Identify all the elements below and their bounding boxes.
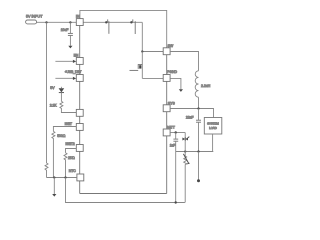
pin USB_DET box [76,75,83,82]
svg-text:BATT: BATT [167,126,176,130]
wire: inductor bottom to SYS rail [198,97,200,108]
wire: ground rail y=151 [176,151,214,153]
capacitor C4 22uF [198,109,200,121]
capacitor C1 on top rail (tiny) [105,19,109,33]
capacitor C2 on top rail (tiny) [130,19,135,34]
wire: SW to inductor top [170,52,198,71]
svg-text:10uF: 10uF [61,28,69,32]
connector J1 5V input [26,20,37,24]
node: junction dot 10uF tap [69,21,71,23]
pin BATT box [163,129,170,136]
pin PGND box [163,75,170,82]
wire: riser down to bottom ground run [66,178,185,203]
wire: SW node to SW pin [142,51,163,53]
wire: rail continuing right of IN pin (IC top edge) to corner [83,21,142,23]
wire: NTC bus [47,177,77,179]
pin NTC box [77,174,84,181]
svg-text:5V: 5V [50,86,55,90]
wire: ISET to 500 ohm resistor [53,127,76,132]
node: dot thermistor top [184,150,186,152]
svg-text:2.2uH: 2.2uH [201,84,211,88]
node: dot ground run / battery cap [175,201,177,203]
svg-text:2.2K: 2.2K [50,103,58,107]
node: dot at 500ohm/ground stub [53,176,55,178]
box: SYSTEM LOAD [204,118,222,135]
wire: USB_DET input arrow [55,77,73,79]
wire: transistor source down and right to PGND pin [142,77,163,79]
wire: SYS rail to load [170,109,213,118]
ground: arrow for PGND [179,89,183,92]
ground: terminal dot under 22uF line [197,179,200,182]
node: junction dot input rail / left drop [45,21,47,23]
IC U1 right edge [166,55,168,194]
svg-text:IN: IN [76,15,80,19]
pin CHG box (unnamed) [76,109,83,116]
ground: arrow under C3 [68,46,72,49]
node: dot at inductor/SYS junction [197,107,199,109]
svg-text:SYSTEM: SYSTEM [207,122,219,126]
resistor R3 2K [64,153,67,178]
svg-text:+USB_DET: +USB_DET [65,70,83,74]
svg-text:500Ω: 500Ω [57,134,66,138]
pin IN box [76,19,83,26]
wire: BATT rail [170,132,185,134]
pin SYS box [163,105,170,112]
pin SW box [163,48,170,55]
wire: ground stub below bus [53,178,55,195]
wire: PGND to ground arrow [170,78,181,89]
svg-text:SW: SW [168,44,174,48]
svg-text:1uF: 1uF [170,143,175,147]
svg-text:ISET2: ISET2 [65,142,74,146]
pin EN box [76,58,83,65]
svg-text:LOAD: LOAD [209,126,218,130]
resistor R2 500ohm [52,131,55,177]
svg-text:2KΩ: 2KΩ [68,156,75,160]
capacitor C3 10uF input [69,22,71,33]
resistor R4 on left drop [45,163,48,178]
IC U1 left edge [79,25,81,193]
node: junction dot at SW drop [141,50,143,52]
wire: top rail from IN pin up and over to SW drop [80,10,167,47]
wire: 22uF line below rail [198,152,200,180]
wire: input rail y=22 from connector to IN pin [37,21,77,23]
thermistor RT1 [184,152,186,157]
IC U1 bottom edge [80,193,167,195]
diode D2 TVS on battery rail [184,133,186,138]
node: dot at 2K / U2 riser [64,176,66,178]
svg-text:22uF: 22uF [186,115,194,119]
wire: ISET2 to 2K resistor [66,149,77,153]
pin ISET box [76,124,83,131]
svg-text:5V INPUT: 5V INPUT [26,13,43,18]
wire: left long drop x=46.5 down to NTC bus [46,22,48,163]
svg-text:NTC: NTC [69,169,76,173]
node: dot 22uF crossing [197,150,199,152]
thermistor strike arrow [183,154,189,164]
resistor R1 2.2K [60,101,76,112]
wire: drop continues below SW node to transistor [141,52,143,79]
svg-text:EN: EN [74,53,79,57]
node: dot battery cap tap [175,131,177,133]
wire: EN input arrow [55,60,73,62]
transistor Q1 (tiny MOSFET glyph) [130,65,143,71]
pin ISET2 box [76,145,83,152]
svg-text:ISET: ISET [65,122,73,126]
ground: arrow under bus [52,194,56,197]
capacitor C5 1uF battery [175,133,177,139]
wire: load bottom to ground rail [212,134,214,152]
svg-text:SYS: SYS [168,101,176,105]
inductor L1 2.2uH [195,71,198,97]
svg-text:PGND: PGND [167,70,177,74]
diode D1 LED [60,87,62,88]
wire: corner drop x=142.3 from top edge down to SW node [141,22,143,51]
